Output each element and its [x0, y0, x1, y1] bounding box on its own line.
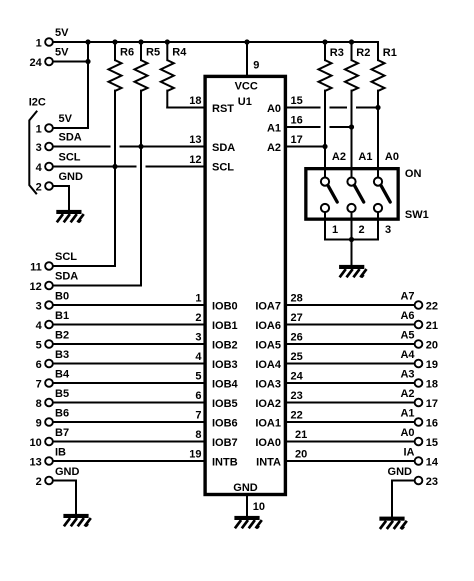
- svg-text:5V: 5V: [55, 47, 69, 59]
- svg-text:5: 5: [36, 340, 42, 352]
- svg-text:A2: A2: [267, 142, 281, 154]
- svg-text:GND: GND: [233, 482, 258, 494]
- svg-text:A1: A1: [400, 407, 414, 419]
- svg-text:21: 21: [295, 429, 307, 441]
- svg-text:IOA3: IOA3: [255, 378, 281, 390]
- svg-text:A7: A7: [400, 290, 414, 302]
- svg-text:A2: A2: [400, 388, 414, 400]
- svg-text:IOB2: IOB2: [212, 339, 238, 351]
- svg-text:A3: A3: [400, 368, 414, 380]
- svg-text:IOB4: IOB4: [212, 378, 239, 390]
- svg-text:16: 16: [426, 418, 438, 430]
- svg-text:A0: A0: [267, 103, 281, 115]
- svg-text:24: 24: [30, 57, 43, 69]
- svg-text:IOA5: IOA5: [255, 339, 281, 351]
- svg-text:27: 27: [291, 312, 303, 324]
- svg-text:A0: A0: [385, 151, 399, 163]
- svg-text:6: 6: [195, 390, 201, 402]
- svg-text:A6: A6: [400, 310, 414, 322]
- svg-text:IOB7: IOB7: [212, 437, 238, 449]
- svg-text:1: 1: [332, 224, 338, 236]
- svg-text:5: 5: [195, 370, 201, 382]
- svg-text:1: 1: [36, 38, 42, 50]
- svg-text:7: 7: [195, 409, 201, 421]
- svg-text:A1: A1: [267, 122, 281, 134]
- svg-text:3: 3: [195, 331, 201, 343]
- svg-text:IOA4: IOA4: [255, 359, 282, 371]
- svg-text:IOB3: IOB3: [212, 359, 238, 371]
- svg-text:22: 22: [426, 301, 438, 313]
- svg-text:B4: B4: [55, 368, 70, 380]
- svg-text:VCC: VCC: [235, 80, 258, 92]
- svg-text:24: 24: [291, 370, 304, 382]
- svg-text:4: 4: [36, 320, 43, 332]
- svg-text:25: 25: [291, 351, 303, 363]
- svg-text:B7: B7: [55, 427, 69, 439]
- svg-text:B1: B1: [55, 310, 69, 322]
- svg-text:2: 2: [36, 476, 42, 488]
- svg-text:23: 23: [291, 390, 303, 402]
- svg-text:9: 9: [36, 418, 42, 430]
- svg-text:2: 2: [195, 312, 201, 324]
- svg-text:21: 21: [426, 320, 438, 332]
- svg-text:IOA1: IOA1: [255, 417, 281, 429]
- svg-text:10: 10: [30, 437, 42, 449]
- svg-text:GND: GND: [59, 171, 84, 183]
- svg-text:RST: RST: [212, 103, 234, 115]
- svg-text:IB: IB: [55, 446, 66, 458]
- svg-text:5V: 5V: [55, 27, 69, 39]
- svg-text:ON: ON: [405, 168, 422, 180]
- svg-text:20: 20: [295, 448, 307, 460]
- svg-text:22: 22: [291, 409, 303, 421]
- svg-text:GND: GND: [55, 466, 80, 478]
- svg-text:R2: R2: [356, 47, 370, 59]
- svg-text:IOB5: IOB5: [212, 398, 238, 410]
- svg-text:R6: R6: [120, 47, 134, 59]
- svg-text:13: 13: [189, 134, 201, 146]
- svg-text:IA: IA: [404, 446, 415, 458]
- svg-text:11: 11: [30, 262, 42, 274]
- svg-text:SCL: SCL: [212, 162, 234, 174]
- svg-text:18: 18: [189, 95, 201, 107]
- svg-text:3: 3: [385, 224, 391, 236]
- svg-text:IOB6: IOB6: [212, 417, 238, 429]
- svg-text:SDA: SDA: [59, 132, 82, 144]
- svg-text:INTB: INTB: [212, 456, 238, 468]
- svg-text:A0: A0: [400, 427, 414, 439]
- svg-text:2: 2: [359, 224, 365, 236]
- svg-text:2: 2: [36, 182, 42, 194]
- svg-text:23: 23: [426, 476, 438, 488]
- svg-text:B5: B5: [55, 388, 69, 400]
- svg-text:8: 8: [195, 429, 201, 441]
- svg-text:20: 20: [426, 340, 438, 352]
- svg-text:12: 12: [30, 281, 42, 293]
- svg-text:19: 19: [426, 359, 438, 371]
- svg-text:6: 6: [36, 359, 42, 371]
- svg-text:U1: U1: [238, 96, 252, 108]
- svg-text:B0: B0: [55, 290, 69, 302]
- svg-text:SCL: SCL: [55, 251, 77, 263]
- svg-text:SCL: SCL: [59, 152, 81, 164]
- svg-text:A2: A2: [332, 151, 346, 163]
- svg-text:1: 1: [36, 124, 42, 136]
- svg-text:17: 17: [291, 134, 303, 146]
- svg-text:R4: R4: [172, 47, 187, 59]
- svg-text:SW1: SW1: [405, 209, 429, 221]
- svg-text:16: 16: [291, 114, 303, 126]
- svg-text:A1: A1: [358, 151, 372, 163]
- svg-text:GND: GND: [388, 466, 413, 478]
- svg-text:IOA0: IOA0: [255, 437, 281, 449]
- svg-text:B6: B6: [55, 407, 69, 419]
- svg-text:B2: B2: [55, 329, 69, 341]
- svg-text:9: 9: [253, 60, 259, 72]
- svg-text:15: 15: [426, 437, 438, 449]
- svg-text:R3: R3: [330, 47, 344, 59]
- svg-text:8: 8: [36, 398, 42, 410]
- svg-text:R5: R5: [146, 47, 160, 59]
- svg-text:4: 4: [36, 162, 43, 174]
- svg-text:5V: 5V: [59, 113, 73, 125]
- svg-text:IOA2: IOA2: [255, 398, 281, 410]
- svg-text:A5: A5: [400, 329, 414, 341]
- svg-text:4: 4: [195, 351, 202, 363]
- svg-text:15: 15: [291, 95, 303, 107]
- svg-text:IOA6: IOA6: [255, 320, 281, 332]
- svg-text:7: 7: [36, 379, 42, 391]
- svg-text:3: 3: [36, 301, 42, 313]
- svg-text:28: 28: [291, 292, 303, 304]
- svg-text:SDA: SDA: [55, 271, 78, 283]
- svg-text:IOB0: IOB0: [212, 300, 238, 312]
- svg-text:12: 12: [189, 154, 201, 166]
- svg-text:B3: B3: [55, 349, 69, 361]
- svg-text:A4: A4: [400, 349, 415, 361]
- svg-text:1: 1: [195, 292, 201, 304]
- svg-text:R1: R1: [383, 47, 397, 59]
- svg-text:SDA: SDA: [212, 142, 235, 154]
- svg-text:17: 17: [426, 398, 438, 410]
- svg-text:26: 26: [291, 331, 303, 343]
- svg-text:19: 19: [189, 448, 201, 460]
- svg-text:3: 3: [36, 142, 42, 154]
- svg-text:INTA: INTA: [256, 456, 281, 468]
- svg-text:18: 18: [426, 379, 438, 391]
- svg-text:IOA7: IOA7: [255, 300, 281, 312]
- svg-text:13: 13: [30, 457, 42, 469]
- svg-text:14: 14: [426, 457, 439, 469]
- svg-text:IOB1: IOB1: [212, 320, 238, 332]
- svg-text:10: 10: [253, 501, 265, 513]
- svg-text:I2C: I2C: [29, 97, 46, 109]
